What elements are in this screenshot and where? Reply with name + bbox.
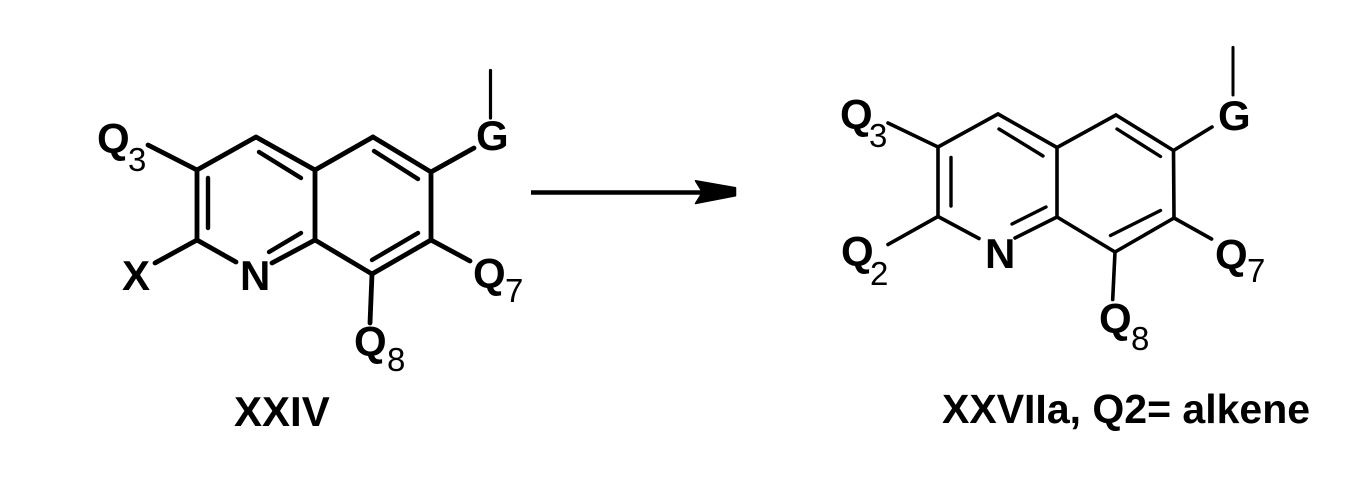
double bond inner line C5=C6 XXIV — [374, 151, 418, 179]
svg-text:Q: Q — [354, 318, 387, 365]
bond C8-C8a XXVIIa — [1057, 217, 1115, 252]
svg-text:3: 3 — [869, 117, 887, 154]
bond C3-C2 left ring XXIV — [195, 170, 200, 240]
svg-text:Q: Q — [841, 228, 874, 275]
bond to Q3 substituent XXIV — [148, 145, 197, 170]
methyl line above G XXVIIa — [1232, 47, 1235, 95]
double bond inner line C4=C4a XXVIIa — [999, 129, 1043, 156]
bond C2-N stub XXVIIa — [938, 217, 979, 239]
double bond inner line C8=C7 XXIV — [372, 233, 418, 260]
reaction arrow head — [696, 181, 736, 204]
bond C8-C8a XXIV — [315, 240, 372, 274]
double bond inner line C3=C2 XXIV — [206, 178, 210, 228]
svg-text:7: 7 — [505, 272, 523, 309]
bond C6-C7 XXVIIa — [1172, 151, 1176, 219]
bond C4a-C4 XXIV — [256, 137, 315, 170]
bond C3-C2 left ring XXVIIa — [936, 147, 940, 217]
svg-text:G: G — [476, 112, 509, 159]
bond C8a-C4a shared edge XXIV — [313, 170, 318, 240]
svg-text:3: 3 — [128, 141, 146, 178]
bond C4a-C5 XXIV — [315, 137, 373, 170]
svg-text:Q: Q — [97, 115, 130, 162]
double bond inner line C4=C4a XXIV — [259, 152, 301, 178]
bond C7-C8 XXVIIa — [1115, 218, 1174, 252]
double bond inner line N=C8a XXIV — [269, 233, 301, 252]
bond C6-C7 XXIV — [429, 172, 434, 240]
methyl line above G XXIV — [489, 71, 492, 119]
bond C4-C3 left ring XXVIIa — [938, 114, 998, 147]
bond C5-C6 XXIV — [373, 137, 431, 172]
bond to X substituent XXIV — [155, 240, 197, 263]
bond C2-N stub XXIV — [197, 240, 236, 262]
bond C6 to G substituent XXIV — [431, 148, 474, 172]
bond C6 to G substituent XXVIIa — [1174, 127, 1213, 151]
svg-text:X: X — [122, 252, 150, 299]
bond C5-C6 XXVIIa — [1116, 115, 1174, 151]
svg-text:XXVIIa, Q2= alkene: XXVIIa, Q2= alkene — [942, 386, 1310, 432]
svg-text:7: 7 — [1247, 252, 1265, 289]
bond N-C8a stub XXIV — [272, 240, 315, 263]
bond C7-C8 XXIV — [372, 240, 431, 274]
bond C8 to Q8 substituent XXVIIa — [1113, 252, 1115, 300]
bond to Q3 substituent XXVIIa — [888, 123, 938, 147]
svg-text:Q: Q — [840, 91, 873, 138]
svg-text:N: N — [985, 230, 1015, 277]
svg-text:2: 2 — [870, 255, 888, 292]
svg-text:Q: Q — [1099, 295, 1132, 342]
double bond inner line C5=C6 XXVIIa — [1117, 129, 1161, 157]
bond C7 to Q7 substituent XXVIIa — [1174, 218, 1212, 239]
svg-text:XXIV: XXIV — [234, 388, 330, 435]
bond C4a-C5 XXVIIa — [1057, 115, 1116, 148]
svg-text:8: 8 — [1131, 320, 1149, 357]
bond N-C8a stub XXVIIa — [1015, 217, 1057, 238]
reaction arrow shaft — [531, 190, 704, 195]
bond C4-C3 left ring XXIV — [197, 137, 256, 170]
bond to Q2 substituent XXVIIa — [888, 217, 938, 245]
svg-text:8: 8 — [387, 341, 405, 378]
bond C4a-C4 XXVIIa — [998, 114, 1057, 148]
svg-text:N: N — [240, 252, 270, 299]
bond C8 to Q8 substituent XXIV — [370, 274, 372, 323]
double bond inner line C3=C2 XXVIIa — [949, 158, 952, 207]
bond C7 to Q7 substituent XXIV — [431, 240, 470, 261]
svg-text:Q: Q — [473, 250, 506, 297]
double bond inner line N=C8a XXVIIa — [1012, 207, 1046, 224]
svg-text:Q: Q — [1215, 231, 1248, 278]
bond C8a-C4a shared edge XXVIIa — [1055, 148, 1059, 218]
double bond inner line C8=C7 XXVIIa — [1111, 211, 1161, 236]
svg-text:G: G — [1218, 92, 1251, 139]
